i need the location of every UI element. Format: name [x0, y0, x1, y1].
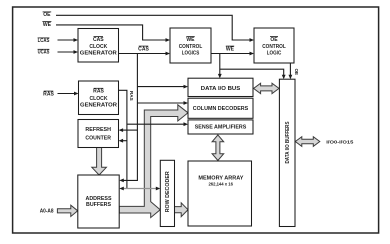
svg-text:UCAS: UCAS	[38, 50, 50, 56]
svg-text:GENERATOR: GENERATOR	[80, 103, 117, 109]
svg-text:WE: WE	[186, 37, 195, 43]
svg-text:DATA I/O BUFFERS: DATA I/O BUFFERS	[285, 121, 291, 164]
svg-text:RAS: RAS	[93, 89, 104, 95]
svg-text:RAS: RAS	[43, 91, 54, 97]
svg-text:CLOCK: CLOCK	[90, 96, 108, 102]
svg-text:ROW DECODER: ROW DECODER	[165, 171, 171, 212]
svg-text:RAS: RAS	[129, 91, 134, 101]
svg-text:GENERATOR: GENERATOR	[80, 50, 117, 56]
svg-text:CONTROL: CONTROL	[262, 44, 286, 50]
svg-text:COLUMN DECODERS: COLUMN DECODERS	[193, 106, 249, 112]
svg-text:WE: WE	[226, 46, 235, 52]
svg-text:A0-A8: A0-A8	[40, 209, 54, 215]
svg-text:BUFFERS: BUFFERS	[86, 202, 112, 208]
svg-text:OE: OE	[270, 37, 278, 43]
svg-text:OE: OE	[294, 68, 299, 75]
svg-text:CAS: CAS	[138, 46, 149, 52]
svg-text:LOGIC: LOGIC	[267, 50, 282, 56]
svg-text:LOGICS: LOGICS	[182, 50, 200, 56]
svg-text:SENSE AMPLIFIERS: SENSE AMPLIFIERS	[195, 125, 247, 131]
svg-text:COUNTER: COUNTER	[85, 136, 111, 142]
svg-text:CLOCK: CLOCK	[89, 44, 107, 50]
svg-text:WE: WE	[43, 22, 52, 28]
svg-text:DATA I/O BUS: DATA I/O BUS	[201, 86, 241, 92]
svg-text:REFRESH: REFRESH	[85, 127, 111, 133]
svg-text:CAS: CAS	[93, 37, 104, 43]
svg-text:I/O0-I/O15: I/O0-I/O15	[326, 140, 354, 145]
svg-text:CONTROL: CONTROL	[179, 44, 203, 50]
svg-text:262,144 x 16: 262,144 x 16	[208, 182, 233, 187]
svg-text:OE: OE	[43, 12, 51, 18]
svg-text:LCAS: LCAS	[38, 38, 50, 44]
